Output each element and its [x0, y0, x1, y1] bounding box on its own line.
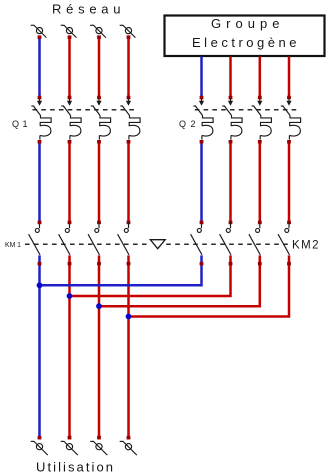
- wire Réseau L4 to Q1: [127, 37, 130, 99]
- contactor KM1 pole 1: [29, 223, 40, 255]
- svg-text:Groupe: Groupe: [211, 16, 280, 31]
- svg-text:Réseau: Réseau: [52, 2, 121, 17]
- terminal Réseau L2: [61, 25, 77, 38]
- wire Q2 pole 1 to KM2: [200, 141, 203, 222]
- terminal Réseau L3: [90, 25, 106, 38]
- junction node phase 2: [67, 293, 73, 299]
- wire Q2 pole 4 to KM2: [288, 141, 291, 222]
- wire Q1 pole 3 to KM1: [98, 141, 101, 222]
- terminal Utilisation L1: [31, 441, 48, 455]
- terminal Utilisation L4: [120, 441, 137, 455]
- junction node phase 1: [37, 282, 43, 288]
- junction node phase 4: [126, 314, 132, 320]
- contactor KM2 pole 2: [220, 223, 231, 255]
- breaker Q2 mechanical link (dashed): [195, 109, 298, 111]
- wire Q2 pole 2 to KM2: [229, 141, 232, 222]
- wire Q1 pole 2 to KM1: [68, 141, 71, 222]
- wire KM1 pole 3 to Utilisation: [98, 255, 101, 439]
- breaker Q1 pole 1: [31, 99, 51, 140]
- wire Q1 pole 4 to KM1: [127, 141, 130, 222]
- wire Réseau L1 to Q1: [38, 37, 41, 99]
- breaker Q1 pole 3: [91, 99, 111, 140]
- wire KM1 pole 4 to Utilisation: [127, 255, 130, 439]
- generator box (Groupe Electrogène): [165, 16, 325, 57]
- breaker Q1 pole 2: [61, 99, 81, 140]
- svg-text:Electrogène: Electrogène: [192, 35, 297, 50]
- contactor KM1 pole 2: [59, 223, 70, 255]
- svg-text:Q1: Q1: [12, 119, 28, 129]
- breaker Q2 pole 4: [281, 99, 301, 140]
- breaker Q1 pole 4: [120, 99, 140, 140]
- contactor KM1 mechanical link (dashed): [25, 243, 149, 245]
- svg-text:KM2: KM2: [292, 240, 319, 252]
- svg-text:KM 1: KM 1: [5, 240, 21, 249]
- terminal Utilisation L3: [90, 441, 107, 455]
- wire KM1 pole 2 to Utilisation: [68, 255, 71, 439]
- wire KM2 pole 2 to bus: [70, 255, 231, 296]
- wire Groupe L2 to Q2: [229, 57, 232, 99]
- svg-text:Q2: Q2: [179, 119, 196, 129]
- wire Groupe L1 to Q2: [200, 57, 203, 99]
- junction node phase 3: [96, 303, 102, 309]
- contactor KM2 mechanical link (dashed): [166, 243, 289, 245]
- mechanical interlock triangle: [150, 240, 165, 249]
- wire Q1 pole 1 to KM1: [38, 141, 41, 222]
- terminal Réseau L4: [120, 25, 136, 38]
- wire Groupe L4 to Q2: [288, 57, 291, 99]
- svg-text:Utilisation: Utilisation: [36, 460, 113, 475]
- breaker Q2 pole 1: [193, 99, 213, 140]
- terminal Réseau L1: [31, 25, 47, 38]
- terminal Utilisation L2: [61, 441, 78, 455]
- contactor KM1 pole 4: [118, 223, 129, 255]
- contactor KM2 pole 1: [191, 223, 202, 255]
- wire Réseau L2 to Q1: [68, 37, 71, 99]
- breaker Q2 pole 3: [252, 99, 272, 140]
- wire Réseau L3 to Q1: [98, 37, 101, 99]
- breaker Q2 pole 2: [222, 99, 242, 140]
- contactor KM2 pole 4: [278, 223, 289, 255]
- contactor KM1 pole 3: [88, 223, 99, 255]
- wire KM2 pole 3 to bus: [99, 255, 260, 306]
- wire KM2 pole 1 to bus: [40, 255, 202, 285]
- wire Q2 pole 3 to KM2: [259, 141, 262, 222]
- wire Groupe L3 to Q2: [259, 57, 262, 99]
- wire KM2 pole 4 to bus: [129, 255, 290, 316]
- contactor KM2 pole 3: [249, 223, 260, 255]
- breaker Q1 mechanical link (dashed): [33, 109, 136, 111]
- wire KM1 pole 1 to Utilisation: [38, 255, 41, 439]
